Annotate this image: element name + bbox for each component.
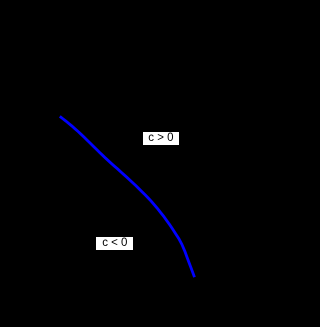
label c < 0 xyxy=(96,237,133,251)
label c > 0 xyxy=(143,132,180,146)
solution curve (blue) xyxy=(0,0,253,327)
